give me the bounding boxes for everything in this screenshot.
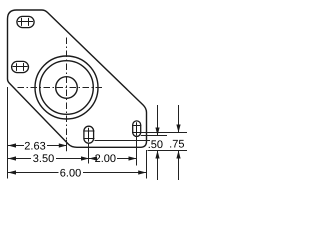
extension line left edge	[7, 87, 9, 179]
svg-text:.75: .75	[169, 138, 184, 150]
dimension 2.63	[8, 140, 67, 152]
dimension 3.50	[8, 153, 89, 165]
slot S4 bottom-right capsule	[133, 121, 141, 136]
extension line bottom reference	[148, 150, 188, 152]
dimension .50 arrows	[148, 105, 163, 180]
svg-text:2.00: 2.00	[95, 153, 116, 165]
extension line slot S3 bottom level	[95, 140, 151, 142]
boss outer circle	[35, 56, 98, 119]
svg-text:.50: .50	[148, 139, 163, 151]
extension line slot S4 bottom level	[141, 132, 187, 134]
part outline	[8, 10, 147, 147]
centerline vertical through boss	[66, 38, 68, 152]
slot S4 center marks	[136, 122, 138, 135]
slot S2 center marks	[13, 66, 28, 68]
extension line right edge	[146, 150, 148, 179]
extension line slot S4 centerline	[136, 136, 138, 165]
svg-text:2.63: 2.63	[24, 140, 45, 152]
dimension 2.00	[89, 153, 137, 165]
extension line slot S3 centerline	[88, 143, 90, 163]
slot S3 center marks	[88, 128, 90, 142]
svg-text:3.50: 3.50	[33, 153, 54, 165]
dimension 6.00	[8, 167, 146, 179]
boss middle circle	[40, 61, 94, 115]
svg-text:6.00: 6.00	[60, 167, 81, 179]
slot S3 bottom-left capsule	[84, 126, 94, 143]
slot S2 left capsule	[12, 61, 29, 72]
centerline horizontal through boss	[18, 87, 104, 89]
extension line slot S4 lower end level	[141, 135, 167, 137]
slot S1 center marks	[18, 21, 33, 23]
slot S1 top-left capsule	[17, 16, 34, 27]
centerline lower solid segment	[66, 140, 68, 152]
dimension .75 arrows	[169, 105, 184, 180]
center hole	[56, 77, 78, 99]
